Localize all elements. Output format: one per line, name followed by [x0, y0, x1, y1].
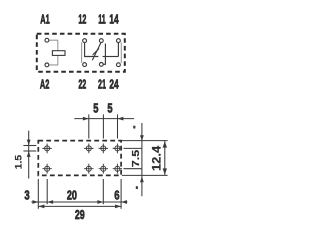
- svg-text:11: 11: [98, 14, 106, 28]
- svg-text:5: 5: [107, 102, 112, 116]
- svg-text:7.5: 7.5: [131, 149, 142, 167]
- svg-text:24: 24: [109, 78, 118, 92]
- svg-text:12.4: 12.4: [150, 146, 163, 171]
- svg-text:A2: A2: [40, 77, 50, 92]
- svg-text:5: 5: [93, 102, 98, 116]
- svg-text:29: 29: [75, 208, 85, 222]
- svg-text:21: 21: [98, 79, 106, 93]
- svg-text:6: 6: [114, 189, 119, 203]
- svg-text:12: 12: [78, 14, 86, 28]
- svg-text:22: 22: [78, 79, 86, 93]
- svg-text:14: 14: [109, 13, 118, 27]
- svg-text:1.5: 1.5: [14, 154, 25, 169]
- svg-text:20: 20: [67, 189, 77, 203]
- svg-text:A1: A1: [40, 13, 50, 28]
- svg-text:3: 3: [24, 189, 29, 203]
